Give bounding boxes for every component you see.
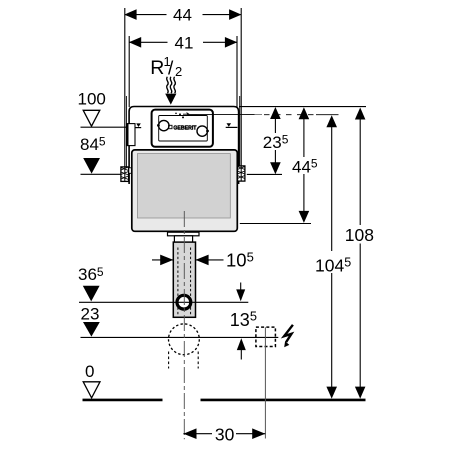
svg-text:41: 41 bbox=[175, 33, 194, 52]
flush pipe body bbox=[173, 242, 195, 317]
inlet arrow bbox=[165, 94, 176, 105]
svg-text:23: 23 bbox=[81, 305, 100, 324]
svg-text:30: 30 bbox=[215, 425, 235, 445]
level line 36.5 bbox=[79, 301, 248, 303]
center line bbox=[183, 211, 185, 439]
top reference line 108 level bbox=[239, 106, 366, 108]
lightning bolt bbox=[284, 325, 293, 342]
level line 84.5 bbox=[81, 173, 122, 175]
extension line right bolt bbox=[240, 8, 242, 166]
dimension 104.5 bbox=[331, 118, 333, 395]
svg-text:R: R bbox=[150, 57, 164, 79]
water level mark right bbox=[227, 123, 232, 127]
dashed drain pipe to floor bbox=[168, 352, 170, 369]
panel top marks bbox=[179, 113, 181, 115]
dimension 44 bbox=[125, 14, 167, 16]
reference line 84.5 right bbox=[247, 173, 282, 175]
dimension 108 bbox=[359, 110, 361, 395]
supply connection box bbox=[127, 124, 135, 146]
level marker 23 filled triangle bbox=[83, 322, 100, 337]
dimension 13.5 bbox=[240, 283, 242, 292]
dashed drain circle bbox=[169, 324, 200, 355]
dimension 23.5 bbox=[274, 110, 276, 170]
reference line tank bottom right bbox=[240, 223, 311, 225]
level marker 0 open triangle bbox=[83, 382, 100, 398]
level line 23 bbox=[81, 336, 279, 338]
geberit logo bbox=[169, 125, 172, 128]
svg-text:GEBERIT: GEBERIT bbox=[173, 126, 197, 132]
flush pipe flange bbox=[168, 232, 200, 236]
extension line left bolt bbox=[124, 8, 126, 167]
right bracket bbox=[237, 166, 245, 181]
electrical box dashed bbox=[256, 327, 276, 346]
level marker 100 open triangle bbox=[83, 110, 100, 126]
svg-text:0: 0 bbox=[85, 362, 94, 381]
extension line frame right bbox=[236, 36, 238, 107]
panel button left bbox=[159, 120, 169, 130]
dimension 10.5 bbox=[152, 259, 173, 261]
flush pipe dashed inner walls bbox=[177, 248, 179, 315]
left bracket bbox=[129, 168, 132, 174]
dimension 41 bbox=[129, 41, 167, 43]
dimension 30 bbox=[183, 433, 212, 435]
floor line bbox=[83, 399, 163, 402]
svg-text:44: 44 bbox=[173, 6, 192, 25]
flush pipe neck bbox=[174, 236, 192, 242]
level line 100 bbox=[81, 126, 128, 128]
cistern tank bbox=[132, 150, 238, 231]
panel button right bbox=[197, 126, 207, 136]
dimension 44.5 bbox=[303, 110, 305, 219]
tank inner panel bbox=[137, 154, 230, 218]
extension line frame left bbox=[128, 36, 130, 107]
water level mark left bbox=[136, 123, 141, 127]
level marker 84.5 filled triangle bbox=[83, 158, 100, 174]
svg-text:108: 108 bbox=[345, 225, 374, 245]
svg-text:100: 100 bbox=[78, 90, 106, 109]
frame bbox=[129, 107, 239, 185]
water inlet squiggle bbox=[167, 77, 169, 93]
reference line 104.5 level (dashed) bbox=[189, 113, 262, 115]
drain outlet circle bbox=[177, 295, 191, 309]
access panel bbox=[152, 110, 213, 147]
level marker 36.5 filled triangle bbox=[83, 286, 100, 302]
electrical supply line bbox=[264, 327, 266, 438]
svg-text:2: 2 bbox=[175, 64, 182, 79]
svg-text:/: / bbox=[168, 59, 174, 80]
